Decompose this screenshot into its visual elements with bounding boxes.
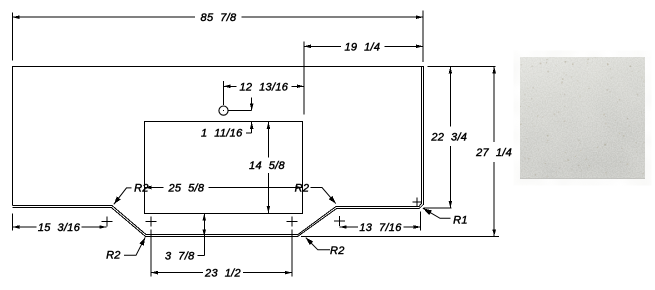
svg-text:1 11/16: 1 11/16 [201,128,243,140]
svg-text:13 7/16: 13 7/16 [359,222,402,234]
svg-text:R2: R2 [106,250,121,262]
svg-text:14 5/8: 14 5/8 [249,160,285,172]
svg-text:19 1/4: 19 1/4 [344,41,380,53]
svg-text:R1: R1 [453,215,468,227]
svg-text:R2: R2 [134,183,149,195]
svg-text:25 5/8: 25 5/8 [167,183,204,195]
svg-text:R2: R2 [295,183,310,195]
svg-text:12 13/16: 12 13/16 [239,81,288,93]
svg-text:R2: R2 [330,245,345,257]
svg-text:27 1/4: 27 1/4 [475,147,512,159]
svg-text:85 7/8: 85 7/8 [201,12,237,24]
svg-text:3 7/8: 3 7/8 [165,251,195,263]
svg-text:15 3/16: 15 3/16 [38,222,81,234]
svg-text:23 1/2: 23 1/2 [204,268,241,280]
svg-text:22 3/4: 22 3/4 [430,131,467,143]
